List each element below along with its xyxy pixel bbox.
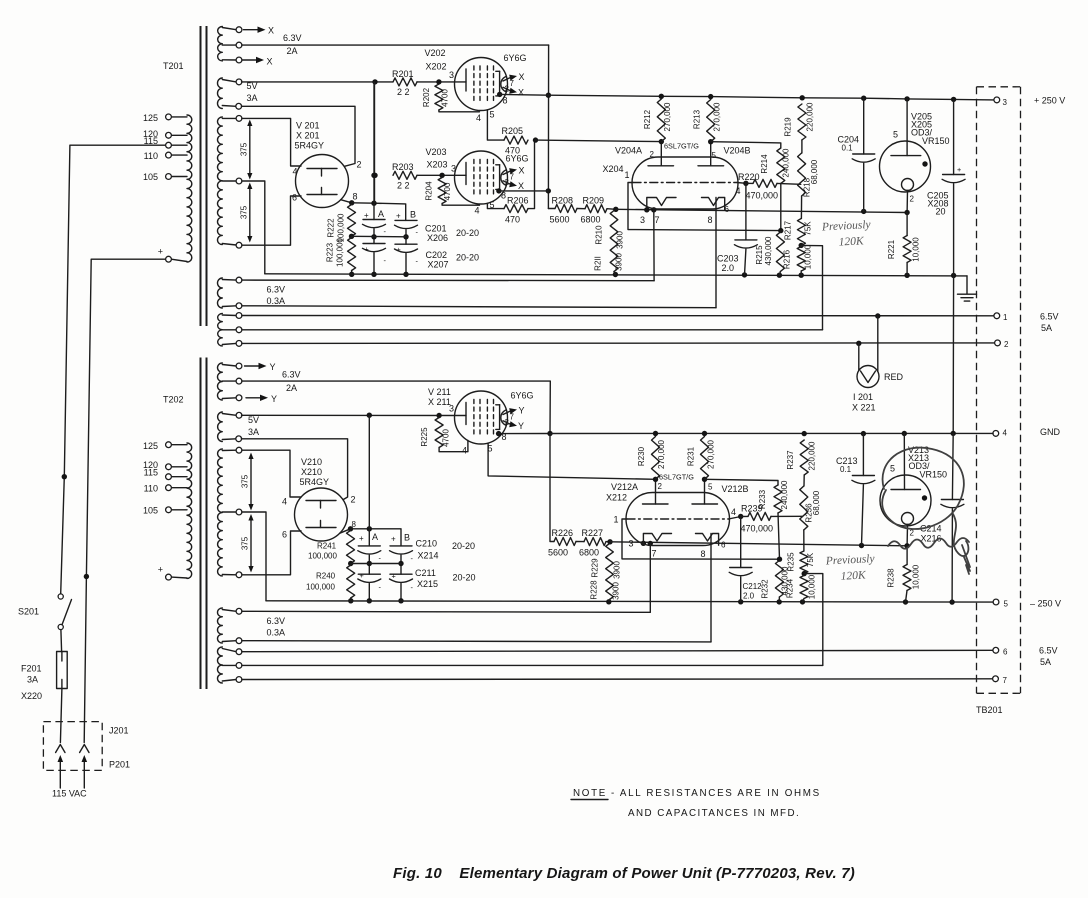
svg-text:3900: 3900 <box>612 582 621 600</box>
capacitor C211 section B <box>390 574 413 603</box>
wire terminal 2 line <box>242 341 995 346</box>
capacitor C212 2.0 <box>729 517 762 602</box>
svg-text:110: 110 <box>144 151 158 161</box>
svg-text:430,000: 430,000 <box>764 236 773 265</box>
svg-text:5600: 5600 <box>550 215 570 225</box>
svg-text:3: 3 <box>449 404 454 414</box>
X output arrows V203 <box>503 166 525 192</box>
svg-text:7: 7 <box>510 173 515 182</box>
resistor R215 430,000 <box>755 232 784 275</box>
svg-text:R240: R240 <box>316 572 336 581</box>
svg-text:10,000: 10,000 <box>808 574 817 599</box>
svg-text:2: 2 <box>910 195 915 204</box>
svg-text:6.3V: 6.3V <box>267 285 286 295</box>
wire R201 to V202 grid <box>417 70 466 85</box>
resistor R208 5600 <box>548 196 577 225</box>
V212A cathode <box>629 534 672 559</box>
svg-text:X: X <box>267 56 273 66</box>
capacitor C205 X208 20 <box>927 99 965 275</box>
svg-text:4700: 4700 <box>441 89 450 107</box>
resistor R204 4700 <box>425 178 480 206</box>
svg-text:20-20: 20-20 <box>452 541 475 551</box>
svg-text:R238: R238 <box>887 568 896 588</box>
svg-text:C203: C203 <box>717 254 739 264</box>
svg-text:X 221: X 221 <box>852 403 876 413</box>
resistor R230 270,000 <box>637 437 666 480</box>
svg-text:220,000: 220,000 <box>808 441 817 470</box>
resistor R216 10,000 <box>783 244 813 275</box>
svg-text:+: + <box>397 245 401 254</box>
label V201 X201 5R4GY <box>295 121 325 151</box>
connector J201 / P201 (dashed box) <box>43 722 130 771</box>
svg-text:R204: R204 <box>425 181 434 201</box>
note previously 120K (bottom) <box>825 553 877 584</box>
svg-text:6800: 6800 <box>581 215 601 225</box>
wire R206 to R205 junction <box>528 140 536 209</box>
wire negative bus (bottom) <box>266 599 993 605</box>
svg-text:R229: R229 <box>591 558 600 578</box>
svg-text:V210: V210 <box>301 457 322 467</box>
svg-text:+: + <box>158 247 163 257</box>
wire 5V bottom to V210 pin 2 <box>241 439 355 505</box>
svg-text:+: + <box>364 211 369 220</box>
svg-text:2: 2 <box>505 418 510 427</box>
svg-text:2: 2 <box>351 495 356 505</box>
T201 winding 6.3V 2A <box>218 27 242 63</box>
svg-text:Y: Y <box>270 362 276 372</box>
svg-text:R214: R214 <box>760 154 769 174</box>
wire GND bus <box>550 431 993 437</box>
svg-text:R203: R203 <box>392 162 414 172</box>
wire 375 CT to negative bus <box>242 512 266 601</box>
svg-text:R230: R230 <box>637 446 646 466</box>
svg-text:Y: Y <box>271 394 277 404</box>
svg-text:6: 6 <box>292 193 297 203</box>
terminal 7 <box>993 676 1008 685</box>
dimension arrows 375 / 375 (T202) <box>241 453 254 511</box>
svg-text:270,000: 270,000 <box>657 439 666 468</box>
resistor R238 10,000 <box>887 546 921 602</box>
svg-text:270,000: 270,000 <box>663 102 672 131</box>
svg-text:R234: R234 <box>786 578 795 598</box>
svg-text:VR150: VR150 <box>920 470 948 480</box>
svg-text:R222: R222 <box>327 218 336 238</box>
T201 primary tap labels <box>143 113 163 257</box>
terminal block TB201 (dashed) <box>976 87 1021 715</box>
svg-text:20-20: 20-20 <box>456 253 479 263</box>
resistor R210 R211 3900 3900 <box>594 211 625 275</box>
capacitor C201 section B <box>395 220 418 244</box>
svg-text:NOTE: NOTE <box>573 788 607 799</box>
svg-text:R223: R223 <box>326 242 335 262</box>
svg-text:X206: X206 <box>427 233 448 243</box>
svg-text:5A: 5A <box>1041 323 1052 333</box>
label GND <box>1040 427 1061 437</box>
svg-text:R235: R235 <box>787 552 796 572</box>
svg-text:270,000: 270,000 <box>707 439 716 468</box>
svg-text:375: 375 <box>241 536 250 550</box>
label V212A V212B X212 6SL7GT/G <box>606 473 749 503</box>
svg-text:3900: 3900 <box>613 561 622 579</box>
wire 375 top to V210 pin 4 <box>242 450 301 506</box>
svg-text:20: 20 <box>936 207 946 217</box>
svg-text:R215: R215 <box>755 245 764 265</box>
terminal 1 <box>994 313 1008 322</box>
svg-text:R213: R213 <box>693 109 702 129</box>
svg-text:V212B: V212B <box>722 484 749 494</box>
wire V212 grid B (pin 4) <box>729 507 744 519</box>
label pins V202 <box>476 96 508 124</box>
svg-text:6SL7GT/G: 6SL7GT/G <box>659 473 694 482</box>
V204A cathode <box>640 198 676 226</box>
svg-text:270,000: 270,000 <box>713 102 722 131</box>
svg-text:J201: J201 <box>109 726 129 736</box>
svg-text:7: 7 <box>510 413 515 422</box>
svg-text:S201: S201 <box>18 607 39 617</box>
svg-text:125: 125 <box>143 113 158 123</box>
resistor R221 10,000 <box>887 213 921 276</box>
svg-text:2A: 2A <box>287 46 298 56</box>
plug arrows (115 VAC in) <box>58 755 88 788</box>
tube V205 OD3/VR150 <box>880 99 931 215</box>
wire heater return to V212 pin 8 <box>242 641 711 642</box>
svg-text:R232: R232 <box>761 579 770 599</box>
svg-text:V204A: V204A <box>615 146 642 156</box>
svg-text:Y: Y <box>519 406 525 416</box>
svg-text:R205: R205 <box>502 126 524 136</box>
svg-text:100,000: 100,000 <box>336 237 345 266</box>
svg-text:R2II: R2II <box>594 256 603 271</box>
label pins V203 <box>475 191 507 216</box>
svg-text:R228: R228 <box>590 580 599 600</box>
svg-text:Fig. 10 Elementary Diagram: Fig. 10 Elementary Diagram of Power Unit… <box>393 865 855 882</box>
svg-text:6Y6G: 6Y6G <box>511 391 534 401</box>
svg-text:125: 125 <box>143 441 158 451</box>
capacitor C203 2.0 <box>717 183 757 275</box>
T201 winding 5V 3A <box>217 78 257 109</box>
resistor R212 270,000 <box>643 99 672 142</box>
svg-text:470,000: 470,000 <box>741 524 774 534</box>
terminal 3 <box>994 97 1008 107</box>
svg-text:2: 2 <box>357 160 362 170</box>
wire cathode bus B (bottom) <box>610 541 907 549</box>
svg-text:375: 375 <box>239 205 248 219</box>
svg-text:X: X <box>268 26 274 36</box>
svg-text:I 201: I 201 <box>853 392 873 402</box>
svg-text:2: 2 <box>505 85 510 94</box>
svg-text:2 2: 2 2 <box>397 181 410 191</box>
svg-text:6Y6G: 6Y6G <box>504 53 527 63</box>
T202 primary tap labels <box>143 441 163 575</box>
svg-text:X215: X215 <box>417 579 438 589</box>
wire Y CT to V211 cathode bus <box>242 381 551 433</box>
wire terminal 1 line <box>242 313 994 318</box>
svg-text:7: 7 <box>1003 676 1008 685</box>
svg-text:120K: 120K <box>838 235 865 248</box>
svg-text:Y: Y <box>518 421 524 431</box>
wire 115V tap bus (left vertical) <box>61 145 169 593</box>
svg-text:R210: R210 <box>595 225 604 245</box>
wire V211 pin5 to R230 <box>488 443 655 479</box>
resistor R205 470 <box>502 126 539 156</box>
resistor R240 100,000 <box>306 565 355 604</box>
svg-text:– 250 V: – 250 V <box>1030 599 1061 609</box>
svg-text:20-20: 20-20 <box>456 228 479 238</box>
wire 375 bottom to V210 pin 6 <box>242 530 301 575</box>
T202 winding 375-375 <box>218 447 242 577</box>
svg-text:+: + <box>391 535 396 544</box>
svg-text:8: 8 <box>701 549 706 559</box>
svg-text:TB201: TB201 <box>976 705 1003 715</box>
svg-text:3900: 3900 <box>616 231 625 249</box>
label 115 VAC <box>52 789 87 799</box>
svg-text:R212: R212 <box>643 109 652 129</box>
svg-text:C212: C212 <box>743 582 763 591</box>
svg-text:7: 7 <box>510 79 515 88</box>
wire cap mid bus <box>352 235 407 238</box>
svg-text:6.3V: 6.3V <box>283 33 302 43</box>
svg-text:2 2: 2 2 <box>397 87 410 97</box>
fuse F201 3A X220 <box>21 652 67 702</box>
wire heater return to V204 pin 8 <box>242 306 716 308</box>
wire C205 bus to GND bus <box>952 276 954 434</box>
resistor R235 75K <box>787 530 816 576</box>
svg-text:4700: 4700 <box>442 429 451 447</box>
svg-text:X 201: X 201 <box>296 131 320 141</box>
capacitor C202 section A <box>363 244 386 277</box>
resistor R228 R229 3900 3900 <box>590 544 622 602</box>
wire V212 pin8 heater return <box>710 534 712 642</box>
resistor R231 270,000 <box>687 437 716 480</box>
arrow Y (bottom) <box>246 394 277 404</box>
wire R203 to V203 grid <box>372 164 466 179</box>
svg-text:4700: 4700 <box>443 182 452 200</box>
wire switch to fuse <box>60 630 63 652</box>
svg-text:6: 6 <box>1003 648 1008 657</box>
svg-text:220,000: 220,000 <box>806 102 815 131</box>
svg-text:6: 6 <box>721 541 726 550</box>
svg-text:VR150: VR150 <box>922 136 950 146</box>
svg-text:R206: R206 <box>507 196 529 206</box>
wire Y CT vertical to R226 <box>550 434 554 542</box>
capacitor C210 section B <box>390 546 413 574</box>
svg-text:X: X <box>519 72 525 82</box>
svg-text:+: + <box>392 572 396 581</box>
arrow Y (top) <box>245 362 276 372</box>
V212B plate <box>692 477 718 504</box>
tube V201 5R4GY <box>296 155 349 208</box>
svg-text:8: 8 <box>501 191 506 201</box>
svg-text:R225: R225 <box>420 427 429 447</box>
svg-text:6.3V: 6.3V <box>282 370 301 380</box>
resistor R222 100,000 <box>327 205 356 243</box>
svg-text:2A: 2A <box>286 383 297 393</box>
svg-text:4: 4 <box>282 497 287 507</box>
svg-text:6800: 6800 <box>579 548 599 558</box>
svg-text:+: + <box>360 571 364 580</box>
svg-text:C202: C202 <box>426 250 448 260</box>
capacitor C204 0.1 <box>838 98 876 211</box>
X output arrows V202 <box>503 72 525 98</box>
svg-text:V 201: V 201 <box>296 121 320 131</box>
svg-text:R221: R221 <box>887 239 896 259</box>
svg-text:T201: T201 <box>163 61 184 71</box>
wire winding CT line (bottom) <box>242 664 823 666</box>
svg-text:C201: C201 <box>425 224 447 234</box>
label +A +B marks (bottom) <box>359 532 414 592</box>
svg-text:5: 5 <box>712 151 717 160</box>
svg-text:R227: R227 <box>582 528 604 538</box>
wire V204 grid B (pin 4) <box>736 181 749 196</box>
Y output arrows V211 <box>503 406 525 432</box>
resistor R225 4700 <box>420 418 468 452</box>
svg-text:375: 375 <box>241 474 250 488</box>
terminal 4 <box>993 429 1008 438</box>
switch S201 <box>18 594 72 630</box>
label +250V <box>1034 96 1065 106</box>
label V211 X211 6Y6G <box>428 387 534 414</box>
label -250V <box>1030 599 1061 609</box>
svg-text:20-20: 20-20 <box>453 573 476 583</box>
label V203 X203 6Y6G <box>426 147 529 170</box>
svg-text:V212A: V212A <box>611 482 638 492</box>
resistor R237 220,000 <box>786 440 817 475</box>
svg-text:0.3A: 0.3A <box>267 628 286 638</box>
V204B cathode <box>702 198 730 226</box>
svg-text:10,000: 10,000 <box>912 237 921 262</box>
svg-text:100,000: 100,000 <box>306 583 335 592</box>
svg-text:B: B <box>410 210 416 220</box>
V212A plate <box>643 477 669 504</box>
resistor R220 470,000 <box>738 172 801 201</box>
svg-text:R241: R241 <box>317 542 337 551</box>
svg-text:115: 115 <box>144 136 158 146</box>
resistor R223 100,000 <box>326 237 356 277</box>
svg-text:75K: 75K <box>804 221 813 236</box>
svg-text:1: 1 <box>625 170 630 180</box>
svg-text:5: 5 <box>1004 600 1009 609</box>
wire 375 CT to B- bus <box>242 181 265 274</box>
svg-text:+: + <box>158 565 163 575</box>
wire screen divider vertical <box>374 82 376 203</box>
svg-text:A: A <box>378 209 384 219</box>
label V202 X202 6Y6G <box>425 48 527 72</box>
svg-text:AND CAPACITANCES IN MFD.: AND CAPACITANCES IN MFD. <box>628 808 800 819</box>
wire V204 grid A (pin 1) to R215 <box>625 170 781 231</box>
wire fuse to J201 <box>60 689 62 743</box>
svg-text:+: + <box>957 165 961 174</box>
svg-text:5R4GY: 5R4GY <box>295 141 325 151</box>
wire 5V top line to V211 grid <box>242 413 467 419</box>
resistor R232 430,000 <box>761 561 790 602</box>
tube V210 5R4GY <box>295 488 348 541</box>
svg-text:R208: R208 <box>552 196 574 206</box>
label V210 X210 5R4GY <box>300 457 330 487</box>
svg-text:120K: 120K <box>840 569 867 582</box>
svg-text:240,000: 240,000 <box>782 148 791 177</box>
svg-text:7: 7 <box>652 549 657 559</box>
dimension arrows 375 / 375 <box>239 120 252 180</box>
svg-text:C211: C211 <box>415 568 436 578</box>
svg-text:10,000: 10,000 <box>804 244 813 269</box>
tube V203 6Y6G <box>455 151 508 204</box>
svg-text:2.0: 2.0 <box>743 592 755 601</box>
V204A plate <box>648 139 674 166</box>
T202 winding 6.5V taps <box>218 647 242 683</box>
wire heater line to V212 pin 7 <box>242 611 651 612</box>
wire B+ bus <box>548 94 994 103</box>
wire cathode bus A (top) <box>616 207 907 214</box>
svg-text:X: X <box>518 88 524 98</box>
svg-text:X207: X207 <box>428 260 449 270</box>
svg-text:A: A <box>372 532 378 542</box>
capacitor C213 0.1 <box>836 434 875 546</box>
wire pin8 bus to cap bank <box>352 201 406 221</box>
terminal 6 <box>993 647 1008 656</box>
resistor R214 240,000 <box>711 142 791 184</box>
capacitor C211 section A <box>358 574 381 603</box>
capacitor C214 X216 <box>920 433 964 602</box>
transformer T201 core <box>163 26 207 326</box>
V212B cathode <box>696 534 727 560</box>
resistor R201 22 <box>392 69 417 97</box>
wire 375 bottom to V201 pin 6 <box>242 193 301 246</box>
svg-text:2: 2 <box>505 178 510 187</box>
label 6.3V 2A <box>283 33 302 56</box>
wire V202 pin8 to B+ bus <box>497 92 548 97</box>
wire R214 bottom to grid line <box>778 183 783 233</box>
label C201 X206 20-20 <box>425 224 479 244</box>
wire terminal 6 line <box>242 650 993 651</box>
T201 winding 6.3V 0.3A <box>218 277 286 308</box>
svg-text:8: 8 <box>708 215 713 225</box>
wire R217/R216 tap to 6.5V line <box>801 245 822 329</box>
svg-text:R202: R202 <box>422 87 431 107</box>
svg-text:+ 250 V: + 250 V <box>1034 96 1065 106</box>
svg-text:375: 375 <box>239 142 248 156</box>
wire 5V bottom to V201 pin 2 <box>241 106 361 169</box>
resistor R202 4700 <box>422 84 480 112</box>
T202 winding 6.3V 0.3A <box>218 608 286 644</box>
svg-text:5: 5 <box>890 464 895 474</box>
resistor R203 22 <box>392 162 417 191</box>
svg-text:C210: C210 <box>416 539 438 549</box>
svg-text:+: + <box>359 534 364 543</box>
svg-text:3900: 3900 <box>615 253 624 271</box>
svg-text:R216: R216 <box>783 249 792 269</box>
svg-text:V204B: V204B <box>724 146 751 156</box>
svg-text:240,000: 240,000 <box>780 480 789 509</box>
resistor R206 470 <box>504 196 529 225</box>
svg-text:R217: R217 <box>784 220 793 240</box>
svg-text:X212: X212 <box>606 493 627 503</box>
label C210 X214 20-20 <box>416 539 476 561</box>
svg-text:X202: X202 <box>426 62 447 72</box>
lamp I201 X221 RED <box>852 316 904 413</box>
capacitor C201 section A <box>363 82 386 244</box>
svg-text:470: 470 <box>505 215 520 225</box>
resistor R241 100,000 <box>308 531 355 567</box>
svg-text:X: X <box>519 166 525 176</box>
svg-text:X203: X203 <box>427 160 448 170</box>
connector pin chevrons <box>56 745 89 753</box>
wire cap mid bus (bottom) <box>351 563 401 565</box>
resistor R236 68,000 <box>800 475 821 530</box>
resistor R227 6800 <box>576 528 613 558</box>
wire V211 pin8 to GND bus <box>496 431 553 437</box>
svg-text:3A: 3A <box>248 427 259 437</box>
wire pin8 bus to cap bank (bottom) <box>351 526 402 546</box>
